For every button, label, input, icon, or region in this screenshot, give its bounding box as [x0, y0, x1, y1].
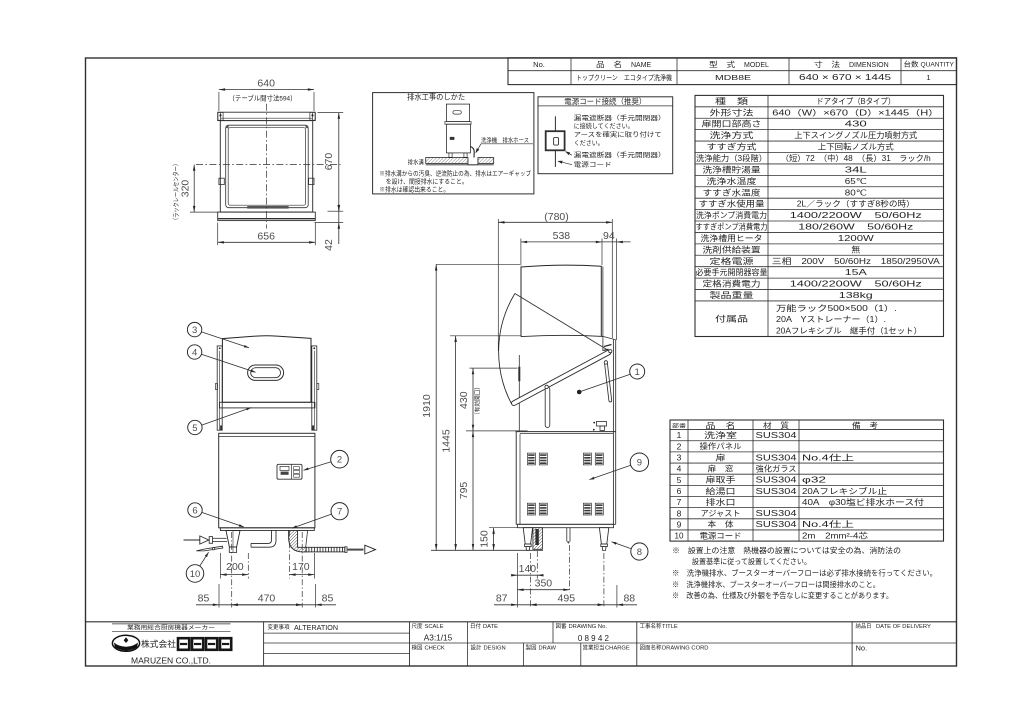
- top view: tank opening inner rims: [226, 125, 309, 208]
- top view: rack rail clips: [219, 178, 224, 184]
- svg-text:製図: 製図: [526, 643, 537, 651]
- svg-text:φ32: φ32: [802, 476, 827, 485]
- svg-text:を設け、間接排水にすること。: を設け、間接排水にすること。: [386, 177, 468, 186]
- svg-text:SUS304: SUS304: [756, 487, 798, 496]
- callout 4 (handle): [187, 345, 201, 359]
- svg-text:製品重量: 製品重量: [710, 290, 754, 300]
- side view: door pivot: [609, 350, 612, 353]
- svg-text:No.4仕上: No.4仕上: [802, 452, 854, 462]
- svg-text:設置基準に従って設置してください。: 設置基準に従って設置してください。: [692, 556, 811, 566]
- front view: door hood: [222, 336, 311, 403]
- svg-text:5: 5: [677, 475, 682, 485]
- svg-text:8: 8: [637, 547, 642, 558]
- svg-text:430: 430: [845, 120, 868, 129]
- svg-text:5: 5: [192, 423, 197, 434]
- svg-text:洗浄能力（3段階）: 洗浄能力（3段階）: [696, 153, 767, 163]
- svg-text:排水口: 排水口: [706, 497, 736, 507]
- svg-text:※ 洗浄機排水、ブースターオーバーフローは間接排水のこと。: ※ 洗浄機排水、ブースターオーバーフローは間接排水のこと。: [672, 579, 880, 589]
- side view: door swing arc: [499, 294, 515, 405]
- svg-text:80℃: 80℃: [845, 188, 867, 197]
- svg-text:1400/2200W 50/60Hz: 1400/2200W 50/60Hz: [790, 280, 922, 289]
- svg-text:SCALE: SCALE: [425, 624, 444, 630]
- svg-text:※ 改善の為、仕様及び外観を予告なしに変更することがあります: ※ 改善の為、仕様及び外観を予告なしに変更することがあります。: [672, 590, 893, 600]
- svg-text:洗浄機 排水ホース: 洗浄機 排水ホース: [481, 136, 529, 144]
- svg-text:納品日: 納品日: [856, 622, 872, 630]
- svg-text:65℃: 65℃: [845, 177, 867, 186]
- ground with hatch and drain pit: [426, 158, 468, 164]
- side view: rear rail: [612, 340, 614, 525]
- header table (No/NAME/MODEL/DIMENSION/QUANTITY): [508, 58, 957, 85]
- svg-text:1400/2200W 50/60Hz: 1400/2200W 50/60Hz: [790, 211, 922, 220]
- callout 10 (cord): [186, 565, 204, 583]
- svg-text:85: 85: [198, 592, 210, 604]
- specification table: [695, 95, 944, 336]
- top view: base plate: [218, 212, 316, 221]
- svg-text:MODEL: MODEL: [744, 62, 769, 69]
- svg-text:4: 4: [192, 347, 197, 358]
- svg-text:SUS304: SUS304: [756, 520, 798, 529]
- maker catchphrase: [112, 623, 231, 625]
- front view: lower cabinet: [219, 433, 315, 528]
- front view: right guide rail: [312, 346, 317, 430]
- svg-text:20Aフレキシブル止: 20Aフレキシブル止: [802, 486, 887, 496]
- svg-text:ドアタイプ（Bタイプ）: ドアタイプ（Bタイプ）: [816, 97, 895, 106]
- svg-text:電源コード: 電源コード: [700, 531, 742, 540]
- svg-text:1: 1: [677, 430, 682, 440]
- svg-text:扉開口部高さ: 扉開口部高さ: [702, 119, 762, 129]
- svg-text:株式会社: 株式会社: [141, 638, 176, 649]
- callout 5 (sill): [188, 420, 202, 434]
- svg-text:9: 9: [677, 519, 682, 529]
- svg-text:図面名称: 図面名称: [640, 643, 662, 651]
- svg-text:電源コード: 電源コード: [574, 160, 612, 169]
- side view: door handle hanging: [545, 387, 550, 428]
- parts list table: [670, 420, 944, 541]
- svg-text:洗浄方式: 洗浄方式: [710, 130, 754, 140]
- svg-text:6: 6: [677, 486, 682, 496]
- front view extension lines: [231, 532, 233, 608]
- svg-text:電源コード接続（推奨）: 電源コード接続（推奨）: [564, 96, 646, 106]
- svg-text:MARUZEN CO.,LTD.: MARUZEN CO.,LTD.: [131, 656, 211, 665]
- mini drain hose into pit: [470, 147, 474, 158]
- callout 6 (inlet): [188, 503, 202, 517]
- svg-text:DIMENSION: DIMENSION: [849, 62, 889, 69]
- maruzen logo mark: [112, 635, 139, 651]
- svg-text:洗剤供給装置: 洗剤供給装置: [703, 244, 761, 254]
- front view: supply pipe: [213, 537, 227, 539]
- svg-text:工事名称: 工事名称: [640, 622, 662, 630]
- svg-text:SUS304: SUS304: [756, 509, 798, 518]
- callout 3 (door): [187, 322, 201, 336]
- svg-text:7: 7: [337, 507, 342, 518]
- svg-text:操作パネル: 操作パネル: [700, 441, 742, 451]
- front view: drain outlet arrow: [348, 549, 364, 551]
- svg-text:20Aフレキシブル 継手付（1セット）: 20Aフレキシブル 継手付（1セット）: [776, 326, 922, 336]
- svg-text:320: 320: [179, 180, 191, 198]
- side view: open door: [511, 349, 612, 406]
- svg-text:本 体: 本 体: [708, 519, 734, 529]
- svg-text:アースを確実に取り付けて: アースを確実に取り付けて: [574, 130, 662, 139]
- svg-text:営業担当: 営業担当: [583, 643, 605, 651]
- svg-text:扉 窓: 扉 窓: [708, 463, 734, 473]
- svg-text:ALTERATION: ALTERATION: [294, 623, 338, 632]
- svg-text:外形寸法: 外形寸法: [710, 107, 754, 117]
- svg-text:88: 88: [623, 592, 635, 604]
- svg-text:DATE OF DELIVERY: DATE OF DELIVERY: [876, 624, 931, 630]
- side view: door lock bracket: [597, 422, 607, 427]
- svg-text:495: 495: [558, 592, 576, 604]
- svg-text:9: 9: [637, 458, 642, 469]
- callout 9 (body): [630, 453, 648, 471]
- top view: centerlines: [266, 104, 268, 229]
- svg-text:（ラックレールセンター）: （ラックレールセンター）: [171, 161, 180, 223]
- svg-text:（有効開口）: （有効開口）: [473, 384, 481, 418]
- svg-text:万能ラック500×500（1）.: 万能ラック500×500（1）.: [776, 303, 897, 313]
- front view: drain elbow (flex hose): [289, 530, 307, 552]
- svg-text:NAME: NAME: [631, 62, 652, 69]
- front view: corrugated drain hose: [306, 547, 345, 552]
- svg-text:140: 140: [519, 563, 537, 575]
- svg-text:に接続してください。: に接続してください。: [574, 121, 634, 130]
- top view: bottom bar in tank: [247, 206, 288, 209]
- svg-text:図番: 図番: [556, 623, 567, 630]
- callout 8 (adjuster foot): [631, 543, 648, 560]
- svg-text:8: 8: [677, 508, 682, 518]
- side view: middle drain pipe: [566, 528, 568, 542]
- svg-text:変更事項: 変更事項: [268, 623, 290, 631]
- svg-text:430: 430: [458, 391, 470, 409]
- svg-text:給湯口: 給湯口: [706, 486, 736, 496]
- svg-text:No.4仕上: No.4仕上: [802, 519, 854, 529]
- svg-text:検図: 検図: [412, 643, 423, 651]
- svg-text:1200W: 1200W: [838, 234, 875, 243]
- svg-text:（テーブル間寸法594）: （テーブル間寸法594）: [229, 93, 297, 102]
- svg-text:CHARGE: CHARGE: [605, 645, 630, 651]
- svg-text:7: 7: [677, 497, 682, 507]
- svg-text:1: 1: [926, 73, 930, 82]
- svg-text:DRAW: DRAW: [539, 645, 557, 651]
- svg-text:4: 4: [677, 464, 682, 474]
- svg-text:寸 法: 寸 法: [814, 59, 841, 69]
- side view: door stay strut: [604, 361, 611, 402]
- svg-text:(780): (780): [544, 211, 569, 223]
- svg-text:定格消費電力: 定格消費電力: [703, 279, 761, 289]
- svg-text:材 質: 材 質: [763, 420, 790, 430]
- svg-text:三相 200V 50/60Hz 1850/2950VA: 三相 200V 50/60Hz 1850/2950VA: [772, 256, 941, 266]
- top view: main body square: [220, 121, 312, 213]
- front view: center drain pipe: [251, 530, 276, 547]
- svg-text:※排水は確認出来ること。: ※排水は確認出来ること。: [379, 185, 449, 194]
- svg-text:10: 10: [675, 531, 684, 541]
- svg-text:94: 94: [603, 230, 615, 242]
- drain-work instruction box: [373, 93, 534, 194]
- svg-text:ください。: ください。: [574, 139, 604, 147]
- svg-text:洗浄槽貯湯量: 洗浄槽貯湯量: [703, 164, 761, 174]
- svg-text:上下回転ノズル方式: 上下回転ノズル方式: [818, 142, 894, 152]
- svg-text:640（W）×670（D）×1445（H）: 640（W）×670（D）×1445（H）: [772, 108, 939, 117]
- svg-text:138kg: 138kg: [839, 291, 873, 300]
- svg-text:SUS304: SUS304: [756, 431, 798, 440]
- svg-text:無: 無: [851, 244, 860, 254]
- svg-text:備 考: 備 考: [852, 420, 879, 430]
- svg-text:87: 87: [496, 592, 508, 604]
- svg-text:部番: 部番: [672, 422, 687, 430]
- side view: legs: [523, 528, 532, 544]
- svg-text:DATE: DATE: [483, 624, 498, 630]
- svg-text:10: 10: [190, 569, 201, 580]
- svg-text:DRAWING No.: DRAWING No.: [569, 624, 608, 630]
- svg-text:795: 795: [458, 482, 470, 500]
- svg-text:すすぎポンプ消費電力: すすぎポンプ消費電力: [696, 222, 768, 232]
- svg-text:180/260W 50/60Hz: 180/260W 50/60Hz: [798, 223, 913, 232]
- svg-text:DESIGN: DESIGN: [484, 645, 506, 651]
- svg-text:品 名: 品 名: [706, 420, 736, 430]
- front view: door handle: [248, 365, 284, 380]
- svg-text:15A: 15A: [845, 268, 868, 277]
- svg-text:85: 85: [322, 592, 334, 604]
- svg-text:40A φ30塩ビ排水ホース付: 40A φ30塩ビ排水ホース付: [802, 497, 924, 507]
- side view: louver vents: [527, 453, 535, 465]
- front view: hot water inlet Y-strainer: [226, 531, 240, 548]
- svg-text:42: 42: [323, 239, 335, 251]
- svg-text:1445: 1445: [440, 429, 452, 453]
- svg-text:すすぎ方式: すすぎ方式: [707, 142, 757, 152]
- svg-text:付属品: 付属品: [715, 313, 748, 323]
- svg-text:（短）72 （中）48 （長）31 ラック/h: （短）72 （中）48 （長）31 ラック/h: [781, 153, 931, 163]
- svg-text:DRAWING CORD: DRAWING CORD: [662, 645, 708, 651]
- side view: base plate: [517, 524, 613, 527]
- svg-text:漏電遮断器（手元開閉器）: 漏電遮断器（手元開閉器）: [574, 150, 666, 159]
- svg-text:6: 6: [192, 505, 197, 516]
- svg-text:CHECK: CHECK: [425, 645, 445, 651]
- svg-text:2: 2: [337, 455, 342, 466]
- mini machine: [446, 104, 469, 122]
- svg-text:洗浄ポンプ消費電力: 洗浄ポンプ消費電力: [696, 210, 767, 220]
- callout 7 (drain): [331, 503, 348, 520]
- front view: door sill band: [220, 402, 315, 408]
- svg-text:型 式: 型 式: [709, 59, 736, 69]
- svg-text:※ 洗浄機排水、ブースターオーバーフローは必ず排水接続を行っ: ※ 洗浄機排水、ブースターオーバーフローは必ず排水接続を行ってください。: [672, 568, 937, 578]
- svg-text:定格電源: 定格電源: [710, 256, 754, 266]
- svg-text:670: 670: [323, 153, 335, 171]
- side view: drain hose (hatched): [533, 528, 543, 550]
- svg-text:上下スイングノズル圧力噴射方式: 上下スイングノズル圧力噴射方式: [794, 130, 917, 140]
- svg-text:業務用総合厨房機器メーカー: 業務用総合厨房機器メーカー: [127, 623, 215, 631]
- svg-text:SUS304: SUS304: [756, 453, 798, 462]
- svg-text:尺度: 尺度: [412, 622, 423, 630]
- svg-text:A3:1/15: A3:1/15: [424, 633, 453, 643]
- callout 2 (panel): [331, 450, 349, 468]
- svg-text:洗浄室: 洗浄室: [704, 430, 737, 440]
- svg-text:2L／ラック（すすぎ8秒の時）: 2L／ラック（すすぎ8秒の時）: [797, 199, 915, 209]
- svg-text:設計: 設計: [471, 643, 482, 651]
- svg-text:洗浄水温度: 洗浄水温度: [707, 176, 757, 186]
- svg-text:No.: No.: [856, 644, 868, 653]
- svg-text:1910: 1910: [421, 394, 433, 418]
- side view: front opening edge: [518, 355, 520, 432]
- svg-text:150: 150: [479, 530, 491, 548]
- svg-text:※排水溝からの汚臭、逆流防止の為、排水はエアーギャップ: ※排水溝からの汚臭、逆流防止の為、排水はエアーギャップ: [379, 169, 532, 178]
- front view: power cord: [196, 546, 223, 551]
- svg-text:170: 170: [292, 561, 310, 573]
- svg-text:640 × 670 × 1445: 640 × 670 × 1445: [799, 73, 892, 82]
- top view: top rail: [218, 112, 316, 120]
- svg-text:640: 640: [257, 78, 275, 90]
- breaker symbol: [554, 116, 556, 131]
- dim 42: [315, 222, 344, 224]
- svg-text:3: 3: [192, 325, 197, 336]
- front view: rear right foot: [295, 531, 307, 550]
- svg-text:SUS304: SUS304: [756, 476, 798, 485]
- front view: left guide rail: [217, 346, 222, 430]
- svg-text:台数: 台数: [904, 60, 919, 69]
- svg-text:アジャスト: アジャスト: [701, 509, 741, 518]
- side view: callout 1 dot: [577, 390, 582, 395]
- side view: floor line: [431, 549, 543, 551]
- svg-text:656: 656: [257, 231, 275, 243]
- svg-text:排水工事のしかた: 排水工事のしかた: [407, 91, 465, 101]
- svg-text:すすぎ水温度: すすぎ水温度: [703, 187, 761, 197]
- svg-text:強化ガラス: 強化ガラス: [756, 463, 797, 473]
- svg-text:08942: 08942: [578, 634, 611, 643]
- svg-text:すすぎ水使用量: すすぎ水使用量: [699, 199, 765, 209]
- title block: [86, 621, 957, 623]
- svg-text:No.: No.: [533, 60, 545, 69]
- svg-text:※ 設置上の注意 熱機器の設置については安全の為、消防法の: ※ 設置上の注意 熱機器の設置については安全の為、消防法の: [672, 545, 901, 555]
- svg-text:TITLE: TITLE: [662, 624, 678, 630]
- svg-text:トップクリーン エコタイプ洗浄機: トップクリーン エコタイプ洗浄機: [576, 73, 672, 82]
- svg-text:350: 350: [535, 577, 553, 589]
- front view: control panel: [277, 464, 302, 479]
- svg-text:MDB8E: MDB8E: [715, 73, 751, 82]
- svg-text:QUANTITY: QUANTITY: [921, 62, 955, 69]
- svg-text:2: 2: [677, 441, 682, 451]
- svg-text:3: 3: [677, 453, 682, 463]
- side view: lower cabinet: [515, 432, 517, 525]
- svg-text:20A Yストレーナー（1）.: 20A Yストレーナー（1）.: [776, 315, 886, 324]
- svg-text:34L: 34L: [845, 165, 868, 174]
- svg-text:1: 1: [635, 367, 640, 378]
- power-cord instruction box: [538, 97, 673, 174]
- svg-text:2m 2mm²-4芯: 2m 2mm²-4芯: [802, 530, 868, 540]
- svg-text:扉取手: 扉取手: [706, 475, 736, 485]
- svg-text:538: 538: [553, 230, 571, 242]
- svg-text:必要手元開閉器容量: 必要手元開閉器容量: [696, 267, 768, 277]
- svg-text:扉: 扉: [716, 452, 726, 462]
- svg-text:200: 200: [226, 561, 244, 573]
- svg-text:排水溝: 排水溝: [408, 158, 424, 166]
- svg-text:470: 470: [258, 592, 276, 604]
- svg-text:洗浄槽用ヒータ: 洗浄槽用ヒータ: [701, 233, 763, 243]
- svg-text:種 類: 種 類: [715, 96, 748, 106]
- svg-text:漏電遮断器（手元開閉器）: 漏電遮断器（手元開閉器）: [574, 113, 666, 122]
- svg-text:品 名: 品 名: [596, 59, 622, 69]
- svg-text:日付: 日付: [470, 622, 481, 630]
- side view: raised hood: [521, 265, 601, 337]
- front view: water supply arrow: [184, 539, 200, 541]
- drawing border frame: [86, 58, 957, 666]
- front view: base plate: [220, 528, 314, 531]
